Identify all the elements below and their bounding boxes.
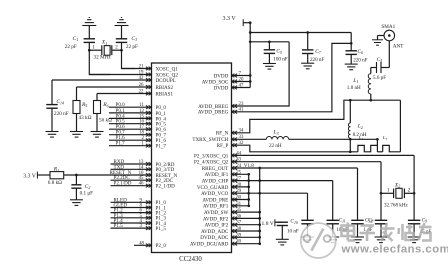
wire rail corner down to C6	[350, 33, 352, 51]
node RLED stub, pin 9	[111, 201, 152, 203]
svg-text:16: 16	[139, 120, 144, 125]
wire AVDD_SOC pin20 to bus	[232, 81, 251, 83]
ground (C2)	[70, 199, 83, 201]
svg-text:www.elecfans.com: www.elecfans.com	[341, 244, 448, 256]
wire AVDD_BREG riser	[232, 42, 290, 106]
svg-text:15: 15	[139, 114, 144, 119]
junction bus A row 186.9	[247, 186, 250, 189]
junction meander mid tap	[376, 138, 379, 141]
svg-text:L3: L3	[273, 130, 279, 136]
svg-text:X1: X1	[101, 40, 107, 46]
svg-text:22: 22	[139, 89, 144, 94]
wire C10 to ground	[281, 226, 283, 240]
svg-text:22 pF: 22 pF	[126, 44, 138, 50]
node P1.5 stub, pin 3	[111, 227, 152, 229]
wire C6 to ground	[350, 54, 352, 64]
ground (C14)	[46, 131, 59, 133]
bus B vertical (pins 35-40)	[259, 168, 261, 244]
wire 3.3V rail	[250, 32, 351, 34]
capacitor C5	[264, 49, 275, 51]
wire loop right edge	[399, 100, 401, 152]
resistor R1	[50, 172, 64, 179]
svg-text:12: 12	[139, 109, 144, 114]
wire stub to bus B	[232, 230, 260, 232]
svg-text:32.768 kHz: 32.768 kHz	[384, 203, 409, 209]
svg-text:R1: R1	[53, 167, 59, 173]
node P0.7 stub, pin 18	[109, 134, 152, 136]
connector SMA1 (ANT)	[384, 30, 395, 41]
svg-text:AVDD_VCO: AVDD_VCO	[201, 191, 229, 197]
svg-text:22 nH: 22 nH	[269, 143, 282, 149]
wire stub to bus B	[232, 243, 260, 245]
watermark logo circle	[301, 223, 336, 258]
wire RBIAS2 to R5	[76, 87, 78, 101]
svg-text:C3: C3	[131, 36, 137, 42]
svg-text:AVDD_DGUARD: AVDD_DGUARD	[190, 242, 229, 248]
wire pin43 riser to crystal pin 1	[380, 162, 382, 221]
ground (C5)	[263, 63, 276, 65]
svg-text:220 nF: 220 nF	[54, 111, 69, 117]
junction L2 top	[349, 99, 352, 102]
wire + pin 26 (left)	[77, 86, 152, 88]
wire ground to C3	[121, 26, 123, 39]
svg-text:V1.8: V1.8	[244, 163, 254, 169]
capacitor C6	[346, 50, 357, 52]
wire + pin 22 (left)	[97, 93, 152, 95]
svg-text:RF_P: RF_P	[217, 143, 229, 149]
node GLED stub, pin 8	[111, 207, 152, 209]
junction bus B row 237.3	[258, 236, 261, 239]
node junction C3/X1	[120, 49, 123, 52]
junction bus B row 224.7	[258, 223, 261, 226]
junction bus B row 231.0	[258, 230, 261, 233]
ground (above C1, flipped up)	[82, 25, 96, 27]
junction bus A row 180.6	[247, 179, 250, 182]
svg-text:26: 26	[139, 83, 144, 88]
junction bus B row 243.7	[258, 242, 261, 245]
capacitor C9	[408, 219, 420, 221]
svg-text:3.3 V: 3.3 V	[223, 16, 237, 22]
junction DVDD pin7	[249, 74, 252, 77]
svg-text:P2_1/DD: P2_1/DD	[156, 184, 176, 190]
wire + pin 19 (left)	[89, 74, 151, 76]
wire C11 to ground	[332, 224, 334, 237]
ground (R5)	[70, 131, 83, 133]
svg-text:220 nF: 220 nF	[310, 57, 324, 63]
node P1.2 stub, pin 6	[111, 212, 152, 214]
capacitor C8	[375, 219, 387, 221]
wire meander mid vertical	[376, 139, 378, 152]
wire RREG_OUT V1.8 line	[232, 167, 358, 169]
wire C5 to ground	[268, 53, 270, 63]
svg-text:P2_0: P2_0	[156, 243, 167, 249]
junction C5 tap	[268, 40, 271, 43]
wire TXRX_SWITCH (pin 33) to L3	[232, 138, 267, 140]
svg-text:SMA1: SMA1	[381, 24, 395, 30]
svg-text:43 kΩ: 43 kΩ	[79, 115, 92, 121]
svg-text:100 nF: 100 nF	[273, 57, 287, 63]
wire C1 to crystal node	[88, 42, 90, 50]
svg-text:48: 48	[139, 241, 144, 246]
node P1.6 stub, pin 2	[109, 139, 152, 141]
wire C5 stub	[268, 42, 270, 50]
svg-text:P1.7: P1.7	[116, 141, 126, 147]
junction 3.3V bus top	[249, 21, 252, 24]
capacitor C7	[302, 49, 313, 51]
svg-text:19: 19	[139, 70, 144, 75]
svg-text:AVDD_DREG: AVDD_DREG	[198, 110, 229, 116]
svg-text:AVDD_PRE: AVDD_PRE	[202, 197, 228, 203]
junction bus B row 212.1	[258, 211, 261, 214]
junction bus A row 199.5	[247, 198, 250, 201]
wire C4 up to SMA	[388, 41, 390, 68]
wire 1.8V to C10	[275, 221, 282, 223]
svg-text:13: 13	[139, 160, 144, 165]
wire stub to bus B	[232, 236, 260, 238]
svg-text:56 kΩ: 56 kΩ	[99, 117, 112, 123]
junction AVDD_DREG joins C6 node	[350, 42, 353, 45]
junction bus B on row 27	[258, 179, 261, 182]
junction R1/C2	[75, 174, 78, 177]
node TXD stub, pin 14	[111, 168, 152, 170]
svg-text:AVDD_IF1: AVDD_IF1	[205, 172, 229, 178]
node P2.1/DD stub, pin 46	[111, 185, 152, 187]
svg-text:AVDD_CHP: AVDD_CHP	[202, 179, 229, 185]
microstrip L5 meander	[383, 145, 401, 151]
wire AVDD_VCO (pin 29) long line	[232, 192, 308, 194]
crystal X2	[381, 192, 394, 194]
wire RF_N route (pin 34)	[232, 100, 401, 133]
crystal X1	[89, 49, 102, 51]
microstrip L4 meander	[358, 145, 378, 151]
wire P2_4 (pin 43) to X2 riser	[232, 161, 382, 163]
bus A vertical (pins 27-31)	[248, 174, 250, 206]
svg-text:R5: R5	[81, 102, 87, 108]
junction bus B on row 29	[258, 192, 261, 195]
pin 48 stub (P2_0)	[134, 244, 152, 246]
capacitor C10	[277, 221, 288, 223]
junction crystal pin1	[380, 192, 383, 195]
node P0.5 stub, pin 16	[109, 123, 152, 125]
capacitor C12	[351, 219, 363, 221]
capacitor C11	[327, 219, 339, 221]
svg-text:17: 17	[139, 125, 144, 130]
svg-text:45: 45	[139, 176, 144, 181]
3.3V terminal tick (top)	[242, 19, 244, 26]
svg-text:L1: L1	[352, 78, 358, 84]
junction bus B top	[258, 167, 261, 170]
node P2.2DC stub, pin 45	[111, 179, 152, 181]
wire C7 to ground	[307, 54, 309, 64]
svg-text:RBIAS1: RBIAS1	[156, 91, 174, 97]
junction bus A row 193.2	[247, 192, 250, 195]
svg-text:46: 46	[139, 182, 144, 187]
junction C5-line tap	[249, 40, 252, 43]
svg-text:10 nF: 10 nF	[287, 228, 299, 234]
svg-text:P1.5: P1.5	[114, 223, 124, 229]
capacitor C3	[116, 38, 127, 40]
svg-text:P2.1/DD: P2.1/DD	[114, 181, 132, 187]
wire stub to bus B	[232, 217, 260, 219]
wire pin44 riser to crystal pin 2	[413, 155, 415, 220]
ground (R6)	[91, 131, 104, 133]
svg-text:6.8 kΩ: 6.8 kΩ	[48, 180, 62, 186]
svg-text:P1_5: P1_5	[156, 226, 167, 232]
wire stub to bus A	[232, 205, 249, 207]
junction L1 bottom	[369, 99, 372, 102]
svg-text:1.8 nH: 1.8 nH	[347, 85, 361, 91]
junction bus A row 205.8	[247, 204, 250, 207]
ground (C8)	[375, 236, 388, 238]
svg-text:C2: C2	[85, 184, 91, 190]
wire C9 to ground	[413, 224, 415, 237]
wire ground to C1	[88, 26, 90, 39]
svg-text:CC2430: CC2430	[179, 256, 202, 263]
wire DVDD pin47 to bus	[232, 87, 251, 89]
node P0.6 stub, pin 17	[109, 128, 152, 130]
wire 3.3V vertical bus	[249, 23, 251, 88]
node P0.1 stub, pin 12	[109, 112, 152, 114]
svg-text:5.6 pF: 5.6 pF	[373, 75, 386, 81]
capacitor C4 (series)	[371, 67, 377, 69]
wire C7 stub	[307, 33, 309, 50]
node P1.3 stub, pin 5	[111, 217, 152, 219]
svg-text:C1: C1	[73, 36, 79, 42]
ground (C11)	[326, 236, 339, 238]
inductor L2 (vertical)	[349, 100, 351, 123]
wire stub to bus B	[232, 224, 260, 226]
svg-text:RBIAS2: RBIAS2	[156, 85, 174, 91]
junction bus B row 218.4	[258, 217, 261, 220]
node P0.4 stub, pin 15	[109, 117, 152, 119]
svg-text:P2_4/XOSC_Q2: P2_4/XOSC_Q2	[194, 160, 229, 166]
svg-text:R6: R6	[102, 102, 108, 108]
svg-text:AVDD_ADC: AVDD_ADC	[201, 229, 229, 235]
svg-text:ANT: ANT	[393, 44, 404, 50]
node RXD stub, pin 13	[111, 163, 152, 165]
svg-text:P1_7: P1_7	[156, 144, 167, 150]
wire + pin 42 (left)	[52, 79, 152, 81]
wire C5 branch line	[250, 41, 289, 43]
wire AVDD_DREG riser	[232, 43, 352, 111]
wire C2 to ground	[75, 188, 77, 200]
node P0.0 stub, pin 11	[109, 106, 152, 108]
wire RBIAS1 to R6	[96, 94, 98, 101]
wire SMA shell to ground	[378, 35, 385, 37]
junction L2 bottom on pin33 line	[349, 138, 352, 141]
svg-text:RF_N: RF_N	[216, 131, 229, 137]
wire R6 to ground	[96, 114, 98, 132]
wire down to pin 19 line	[89, 50, 110, 74]
node P1.4 stub, pin 4	[111, 222, 152, 224]
wire RF_P (pin 32)	[232, 145, 358, 152]
wire 3.3V to vertical bus	[243, 22, 250, 24]
ground (C12)	[351, 236, 364, 238]
watermark chinese characters	[342, 223, 432, 242]
ground (C6)	[345, 63, 358, 65]
wire DCOUPL to C14	[51, 80, 53, 105]
wire R1 to RESET_N pin	[64, 174, 152, 176]
svg-text:11: 11	[139, 103, 144, 108]
svg-text:L2: L2	[357, 124, 363, 130]
svg-text:42: 42	[139, 76, 144, 81]
inductor L3	[266, 137, 272, 140]
svg-text:AVDD_RF2: AVDD_RF2	[203, 216, 229, 222]
wire + pin 21 (left)	[122, 68, 152, 70]
svg-text:P2_3/XOSC_Q1: P2_3/XOSC_Q1	[194, 153, 229, 159]
junction C7 tap	[306, 31, 309, 34]
svg-text:AVDD_SW: AVDD_SW	[204, 210, 228, 216]
junction AVDD_SOC pin20	[249, 80, 252, 83]
svg-text:VCO_GUARD: VCO_GUARD	[197, 185, 229, 191]
wire C12 to ground	[357, 224, 359, 237]
node junction C1/X1	[88, 49, 91, 52]
wire L3 to L2 node	[289, 138, 378, 140]
svg-text:18: 18	[139, 131, 144, 136]
wire C13 to ground	[307, 224, 309, 237]
svg-text:3.3 V: 3.3 V	[23, 173, 37, 179]
ground (C10)	[276, 238, 289, 240]
capacitor C2	[71, 184, 81, 186]
1.8V terminal tick	[274, 219, 276, 226]
svg-text:21: 21	[139, 64, 144, 69]
svg-text:AVDD_IF2: AVDD_IF2	[205, 223, 229, 229]
svg-text:32 MHz: 32 MHz	[94, 54, 112, 60]
capacitor C13	[301, 219, 313, 221]
capacitor C14	[46, 104, 57, 106]
wire L2 to RF_P baseline	[349, 138, 351, 152]
wire 3.3V to R1	[37, 174, 50, 176]
wire stub to bus A	[232, 199, 249, 201]
svg-text:X2: X2	[394, 182, 400, 188]
wire DVDD pin7 to bus	[232, 75, 251, 77]
ground (SMA shell)	[372, 39, 383, 41]
node P1.7 stub, pin 1	[109, 145, 152, 147]
wire P2_3 (pin 44) to X2 riser	[232, 154, 415, 156]
svg-text:RREG_OUT: RREG_OUT	[202, 166, 229, 172]
resistor R6	[94, 101, 101, 114]
wire C8 to ground	[380, 224, 382, 237]
wire baseline gap	[377, 151, 382, 153]
svg-text:DVDD_ADC: DVDD_ADC	[200, 235, 229, 241]
wire stub to bus B	[232, 211, 260, 213]
ground (C9)	[408, 236, 421, 238]
ground (above C3, flipped up)	[115, 25, 129, 27]
svg-text:AVDD_RF1: AVDD_RF1	[203, 204, 229, 210]
junction bus A top	[247, 173, 250, 176]
svg-text:DCOUPL: DCOUPL	[156, 78, 176, 84]
ground (C13)	[301, 236, 314, 238]
resistor R5	[73, 101, 80, 114]
wire C3 to crystal node	[121, 42, 123, 50]
junction crystal pin2	[413, 192, 416, 195]
svg-text:14: 14	[139, 165, 144, 170]
op-amp U1 CC2430 MCU body	[152, 63, 232, 253]
svg-text:1.8 V: 1.8 V	[262, 221, 274, 227]
wire AVDD_IF1 (pin 25) line	[232, 173, 249, 175]
wire stub to bus A	[232, 186, 249, 188]
junction rail tap	[249, 31, 252, 34]
wire riser to C11	[332, 181, 334, 221]
wire R5 to ground	[76, 114, 78, 132]
inductor L1 (vertical)	[370, 94, 372, 100]
ground (C7)	[301, 62, 314, 64]
wire down to pin 21 line	[122, 50, 136, 68]
junction L2 lands on RF_P baseline	[349, 150, 352, 153]
svg-text:DVDD: DVDD	[214, 85, 229, 91]
wire C14 to ground	[51, 108, 53, 131]
wire AVDD_CHP (pin 27) long line	[232, 180, 333, 182]
wire riser to C13	[307, 193, 309, 220]
svg-text:22 pF: 22 pF	[65, 44, 77, 50]
3.3V terminal tick	[36, 172, 38, 179]
svg-text:220 nF: 220 nF	[353, 58, 367, 64]
svg-text:0.1 μF: 0.1 μF	[80, 191, 94, 197]
wire riser to C12	[357, 168, 359, 220]
capacitor C1	[84, 38, 95, 40]
wire junction down to C2	[75, 175, 77, 185]
